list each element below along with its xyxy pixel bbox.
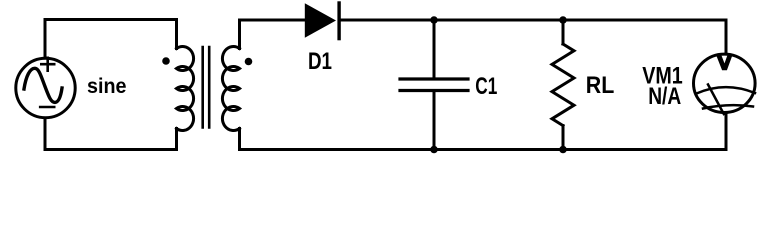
resistor RL bottom lead [562,126,565,150]
sine waveform [24,68,62,102]
junction node A bottom [430,146,438,154]
svg-text:RL: RL [586,73,615,99]
wire secondary top to diode [240,19,306,22]
label V meter [716,55,732,70]
transformer primary coil L1 [177,47,194,131]
resistor RL zigzag [552,44,574,126]
transformer core [203,47,210,128]
wire primary bottom [45,148,177,151]
wire secondary left lower [238,129,241,150]
dot secondary coil [245,58,253,66]
voltmeter scale arc upper [697,87,756,93]
voltmeter scale arc lower [703,105,753,108]
wire primary right upper [175,20,178,49]
voltmeter needle [708,85,724,115]
wire primary left upper [44,20,47,58]
minus sign [40,106,54,109]
plus sign [41,58,54,71]
transformer secondary coil L2 [222,47,239,131]
junction node B top [559,16,567,24]
diode D1 triangle [305,3,336,38]
diode D1 cathode bar [337,1,340,40]
wire primary left lower [44,119,47,150]
wire right edge lower [725,113,728,150]
resistor RL top lead [562,20,565,44]
dot primary coil [162,57,170,65]
junction node B bottom [559,146,567,154]
wire diode to node A [339,19,434,22]
wire right edge upper [725,20,728,54]
svg-text:N/A: N/A [648,84,681,110]
wire secondary bottom [240,148,727,151]
voltmeter VM1 circle [694,54,756,112]
source V1 circle [16,58,75,117]
capacitor C1 top lead [433,20,436,78]
svg-text:C1: C1 [475,74,497,100]
capacitor C1 plates [400,79,468,91]
svg-text:D1: D1 [308,49,332,75]
wire node A to node B [434,19,563,22]
wire primary right lower [175,129,178,150]
wire node B to top right corner [563,19,726,22]
svg-text:sine: sine [87,74,127,98]
junction node A top [430,16,438,24]
wire secondary left upper [238,20,241,49]
capacitor C1 bottom lead [433,92,436,150]
wire primary top [45,18,177,21]
